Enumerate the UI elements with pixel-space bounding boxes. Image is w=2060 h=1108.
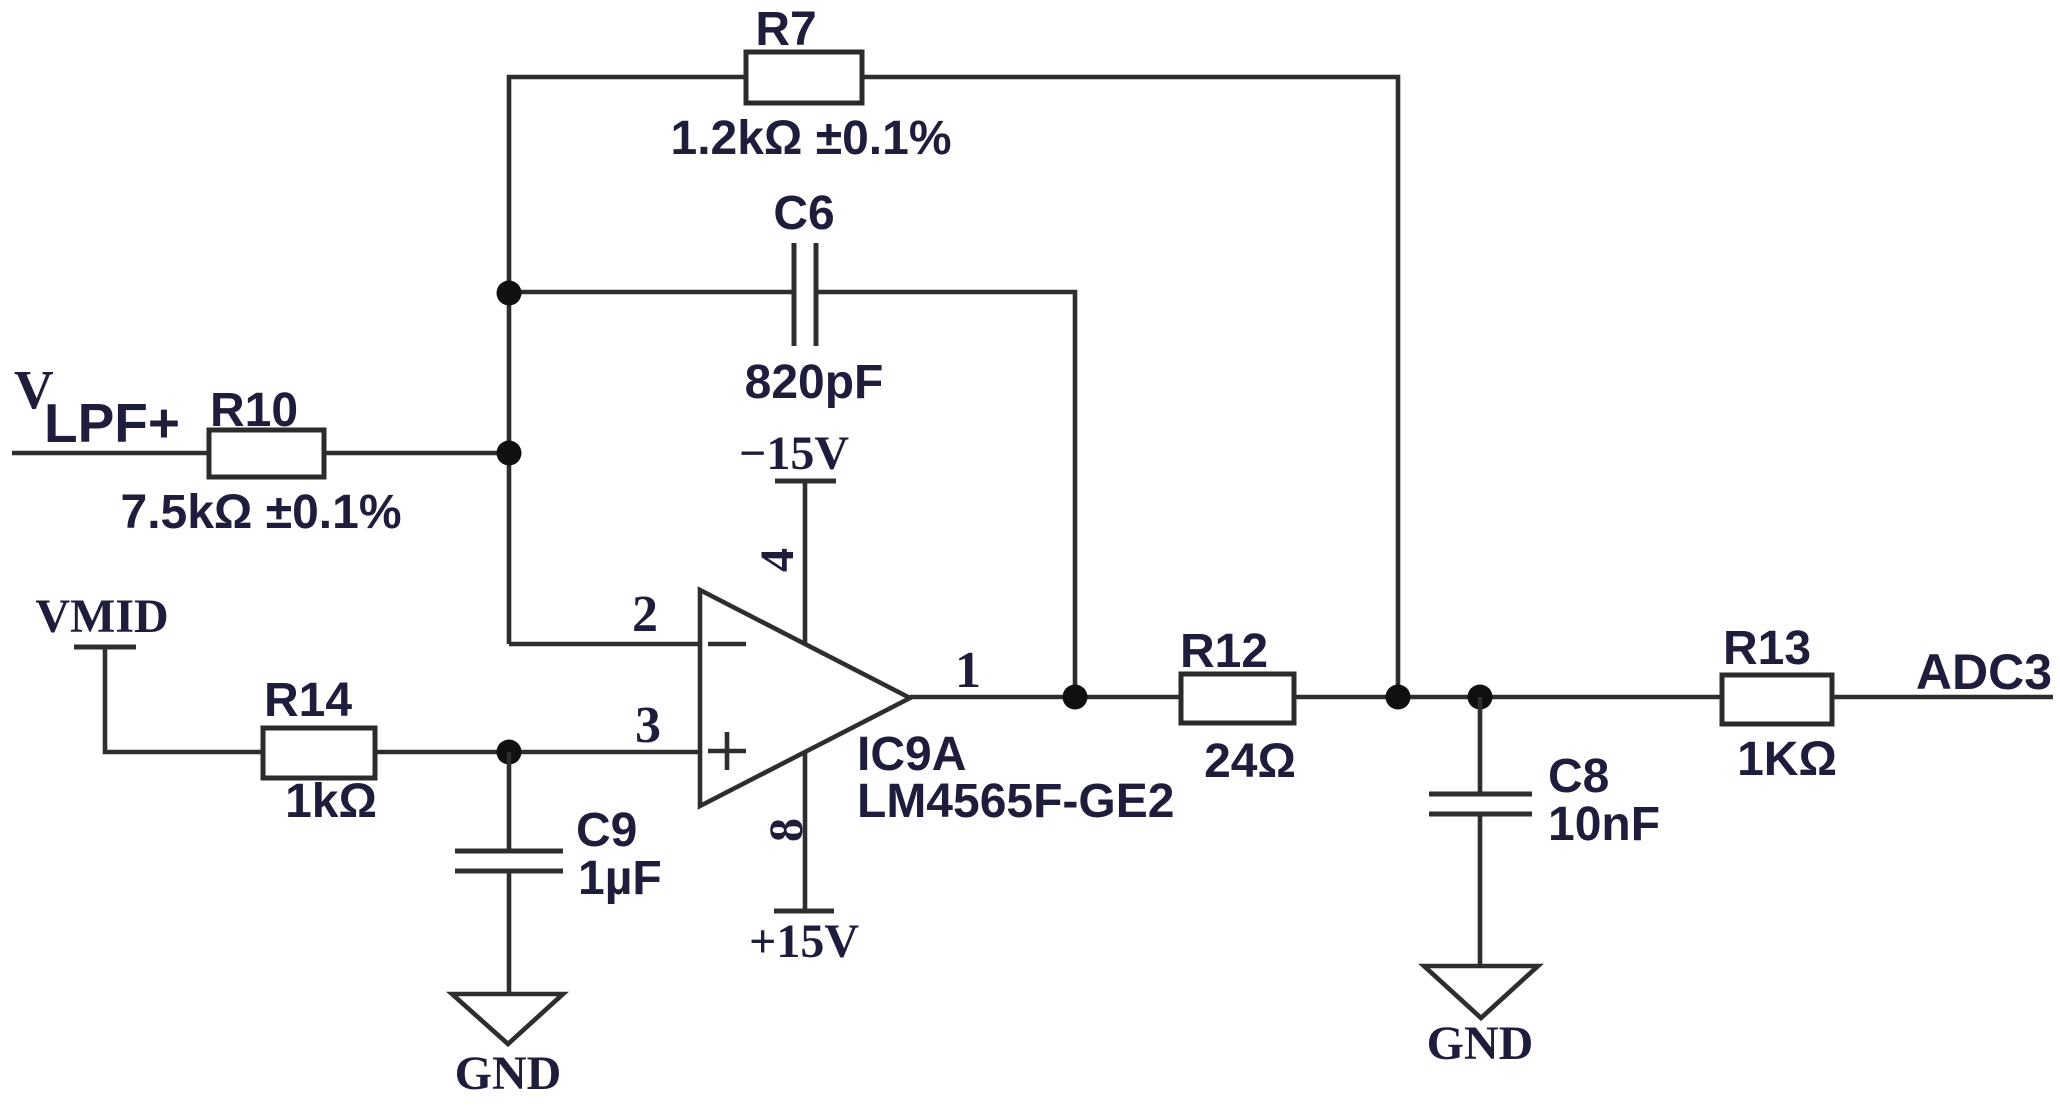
svg-text:7.5kΩ ±0.1%: 7.5kΩ ±0.1%	[121, 486, 402, 539]
wire C6 branch right segment and vertical drop	[816, 292, 1075, 697]
svg-text:GND: GND	[455, 1047, 562, 1100]
resistor R14	[263, 728, 375, 778]
svg-text:R10: R10	[210, 384, 298, 437]
svg-text:2: 2	[632, 586, 658, 643]
junction node at C8 tap	[1468, 685, 1493, 710]
wire C8 branch upper	[1478, 697, 1483, 792]
resistor R10	[209, 430, 324, 477]
resistor R13	[1722, 675, 1832, 724]
svg-text:C6: C6	[773, 187, 834, 240]
svg-text:IC9A: IC9A	[857, 728, 966, 781]
ground symbol (C8)	[1424, 966, 1538, 1018]
svg-text:LM4565F-GE2: LM4565F-GE2	[857, 775, 1174, 828]
svg-text:LPF+: LPF+	[44, 392, 180, 454]
resistor R12	[1181, 674, 1294, 723]
junction node at C6 drop	[1063, 685, 1088, 710]
svg-text:R12: R12	[1180, 625, 1268, 678]
junction node at R7 drop	[1386, 685, 1411, 710]
svg-text:−15V: −15V	[739, 427, 849, 480]
svg-text:8: 8	[760, 818, 813, 842]
svg-text:C9: C9	[576, 804, 637, 857]
ground symbol (C9)	[452, 994, 563, 1044]
svg-text:R14: R14	[264, 674, 352, 727]
capacitor C9	[455, 849, 563, 854]
svg-text:VMID: VMID	[35, 590, 168, 643]
wire feedback loop: left vertical, top run, right drop	[509, 77, 1398, 697]
inverting input minus sign	[708, 642, 746, 647]
svg-text:ADC3: ADC3	[1916, 644, 2052, 700]
wire C9 branch lower	[507, 873, 512, 996]
wire output rail	[910, 695, 2053, 700]
junction node at inverting input column (C6 tap)	[497, 281, 522, 306]
svg-text:1KΩ: 1KΩ	[1737, 733, 1837, 786]
junction node at pin 3 / C9 tap	[497, 740, 522, 765]
power +15V rail (pin 8)	[803, 752, 808, 910]
wire C8 branch lower	[1478, 816, 1483, 968]
svg-text:4: 4	[751, 548, 804, 572]
wire to op-amp pin 2	[509, 642, 700, 647]
svg-text:1kΩ: 1kΩ	[285, 775, 377, 828]
junction node at R10 output	[497, 441, 522, 466]
svg-text:R7: R7	[755, 3, 816, 56]
svg-text:1: 1	[955, 642, 981, 699]
wire C6 branch left segment	[509, 290, 794, 295]
svg-text:3: 3	[635, 697, 661, 754]
non-inverting input plus sign	[708, 749, 746, 754]
wire input	[12, 451, 509, 456]
svg-text:24Ω: 24Ω	[1204, 735, 1296, 788]
svg-text:C8: C8	[1548, 750, 1609, 803]
svg-text:1.2kΩ ±0.1%: 1.2kΩ ±0.1%	[671, 112, 952, 165]
svg-text:+15V: +15V	[749, 915, 859, 968]
wire C9 branch upper	[507, 752, 512, 849]
svg-text:1µF: 1µF	[578, 852, 662, 905]
svg-text:10nF: 10nF	[1548, 798, 1660, 851]
wire VMID to R14 and op-amp pin 3	[105, 647, 700, 752]
op-amp IC9A	[700, 590, 910, 806]
capacitor C8	[1429, 792, 1532, 797]
svg-text:820pF: 820pF	[745, 356, 884, 409]
resistor R7	[746, 52, 862, 103]
svg-text:GND: GND	[1427, 1017, 1534, 1070]
svg-text:R13: R13	[1723, 622, 1811, 675]
capacitor C6	[792, 243, 797, 346]
